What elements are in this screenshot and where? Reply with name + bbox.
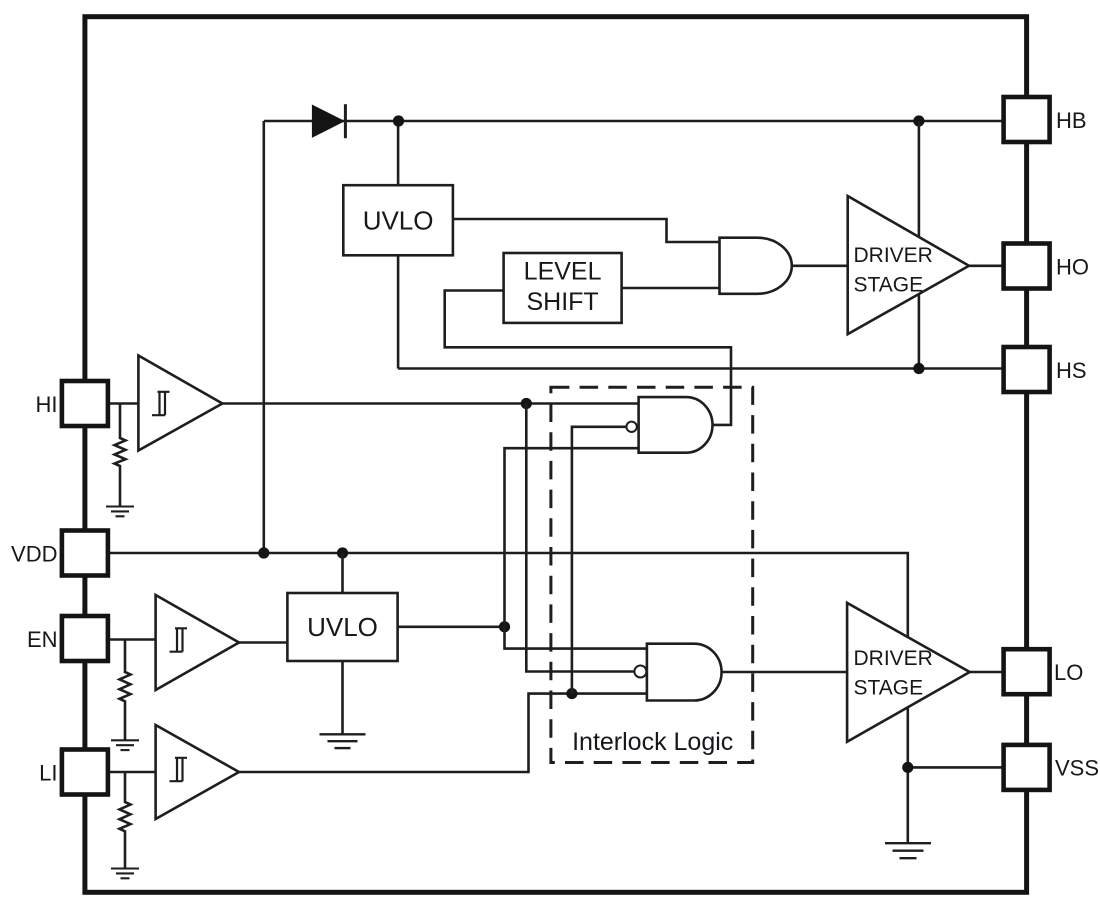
wire UVLO2 bottom to ground (341, 661, 344, 734)
svg-text:Interlock Logic: Interlock Logic (572, 728, 733, 756)
node VDD UVLO2 dot (337, 547, 348, 558)
inverting bubble G2 (634, 666, 646, 678)
pin VDD (11, 531, 108, 576)
svg-text:UVLO: UVLO (363, 205, 434, 235)
interlock gate G1 (high side) (639, 397, 713, 453)
svg-text:SHIFT: SHIFT (526, 288, 598, 316)
wire VSS pin line (908, 766, 1004, 769)
svg-text:DRIVER: DRIVER (854, 647, 933, 670)
svg-text:UVLO: UVLO (307, 612, 378, 642)
wire HI pin to buffer (108, 402, 138, 405)
svg-text:STAGE: STAGE (854, 677, 924, 700)
wire VDD to diode anode riser (262, 121, 265, 553)
wire HI signal down to gate2 inhibit input (526, 404, 634, 672)
wire driver1 bottom rail to HS (918, 294, 921, 369)
diode D1 (312, 104, 346, 138)
node HI signal dot (521, 398, 532, 409)
wire driver2 bottom rail (906, 707, 909, 843)
wire driver1 output to HO pin (969, 264, 1004, 267)
LEVEL SHIFT block (504, 253, 622, 323)
wire HI buffer output to interlock (222, 402, 638, 405)
resistor R1 (HI pulldown) (115, 404, 126, 507)
node HB junction dot (393, 115, 404, 126)
svg-text:STAGE: STAGE (854, 274, 924, 297)
pin HO (1004, 244, 1089, 289)
wire LI buffer output to gate2 input (239, 694, 647, 772)
node VSS rail dot (902, 762, 913, 773)
wire HB rail (diode cathode to HB pin) (264, 120, 1004, 123)
resistor R3 (LI pulldown) (120, 772, 131, 869)
svg-text:HS: HS (1056, 358, 1087, 383)
interlock dashed box (551, 387, 753, 762)
pin HB (1004, 97, 1087, 142)
wire LI signal up to gate1 inhibit input (572, 427, 627, 694)
resistor R2 (EN pulldown) (120, 640, 131, 741)
svg-text:LO: LO (1054, 660, 1083, 685)
wire driver2 output to LO pin (970, 671, 1004, 674)
svg-text:DRIVER: DRIVER (854, 244, 933, 267)
node HB driver rail dot (913, 115, 924, 126)
interlock gate G2 (low side) (647, 644, 722, 701)
ground (R3) (111, 869, 139, 879)
svg-text:HI: HI (36, 392, 58, 417)
wire HS line (398, 367, 1004, 370)
node EN/UVLO2 signal dot (499, 621, 510, 632)
wire UVLO2 output to interlock (398, 625, 505, 628)
ground (R2) (111, 740, 139, 750)
node LI signal dot (566, 688, 577, 699)
wire UVLO2 signal to gate2 input (505, 627, 647, 649)
wire VDD to UVLO2 top (341, 553, 344, 593)
svg-text:LEVEL: LEVEL (524, 258, 602, 286)
wire gate2 output to driver2 (722, 671, 848, 674)
pin EN (27, 616, 108, 661)
pin VSS (1004, 745, 1099, 790)
node VDD diode dot (258, 547, 269, 558)
AND gate U2 (high side) (720, 238, 792, 294)
pin HI (36, 381, 108, 426)
svg-text:EN: EN (27, 627, 58, 652)
wire UVLO1 bottom to HS line (397, 255, 400, 368)
pin LO (1004, 649, 1084, 694)
driver stage 2 (low side) (847, 603, 970, 742)
wire AND output to driver1 (792, 264, 848, 267)
wire EN buffer output to UVLO2 (239, 641, 287, 644)
UVLO U3 (low side) (287, 593, 397, 661)
pin HS (1004, 347, 1087, 392)
inverting bubble G1 (626, 422, 636, 432)
svg-text:LI: LI (39, 761, 57, 786)
schmitt buffer A3 (LI) (156, 725, 239, 819)
wire interlock gate1 output to level-shift input (445, 291, 731, 425)
svg-text:HO: HO (1056, 255, 1089, 280)
wire driver1 top rail (918, 121, 921, 237)
node HS junction dot (913, 363, 924, 374)
wire UVLO1 output to AND gate (453, 219, 720, 242)
svg-text:VSS: VSS (1055, 756, 1099, 781)
UVLO U1 (high side) (343, 185, 453, 255)
svg-text:HB: HB (1056, 108, 1087, 133)
wire HB node to UVLO1 top (397, 121, 400, 185)
wire LI pin to buffer (108, 771, 156, 774)
ground (VSS) (885, 843, 931, 858)
schmitt buffer A1 (HI) (138, 356, 222, 451)
pin LI (39, 750, 108, 795)
wire EN pin to buffer (108, 638, 156, 641)
svg-text:VDD: VDD (11, 542, 57, 567)
schmitt buffer A2 (EN) (156, 595, 239, 690)
ground (UVLO2) (320, 734, 366, 748)
wire level-shift output to AND gate (622, 287, 720, 290)
wire VDD rail (108, 553, 908, 637)
ground (R1) (106, 507, 134, 517)
wire UVLO2 signal to gate1 input (505, 448, 639, 627)
driver stage 1 (high side) (848, 196, 969, 334)
